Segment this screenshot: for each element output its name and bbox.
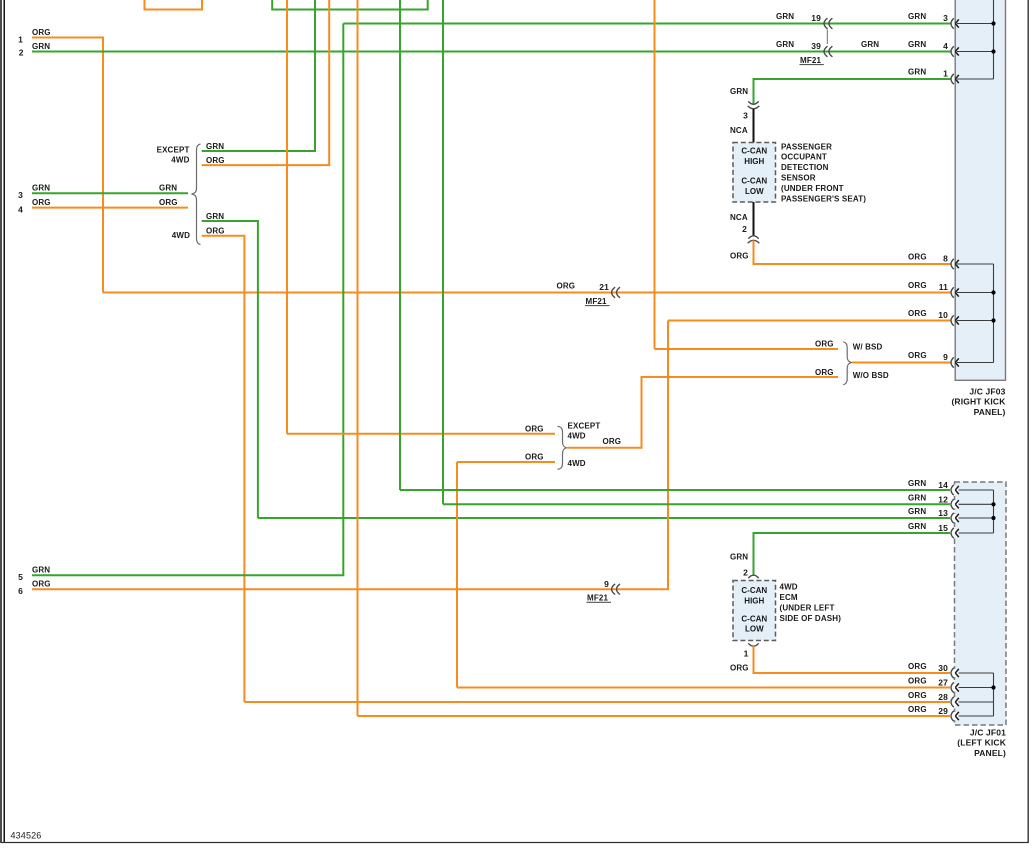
4WD ECM name text — [780, 583, 842, 623]
svg-text:GRN: GRN — [730, 87, 748, 96]
svg-text:ORG: ORG — [730, 252, 749, 261]
svg-text:ORG: ORG — [908, 662, 927, 671]
in-line connector (double arc) above POD sensor — [748, 101, 760, 108]
svg-text:9: 9 — [943, 352, 948, 362]
wire 2 GRN (left pin 2 to J/C JF03 pin 4, via splice MF21 pin 39) — [32, 51, 951, 53]
svg-text:ORG: ORG — [908, 351, 927, 360]
svg-text:2: 2 — [19, 48, 24, 58]
wire ORG from top to W/ BSD brace — [655, 0, 839, 349]
left pin 3 labels — [18, 184, 177, 201]
diagram number — [11, 830, 42, 840]
wire ORG 4WD ECM pin 1 to J/C JF01 pin 30 — [753, 646, 951, 673]
J/C JF01 name text — [957, 727, 1006, 757]
svg-text:C-CAN: C-CAN — [741, 177, 767, 186]
mid GRN label on wire 2 — [861, 40, 879, 49]
wire 3 GRN (left pin 3 to brace) — [32, 192, 188, 194]
svg-text:GRN: GRN — [776, 12, 794, 21]
svg-text:ORG: ORG — [908, 309, 927, 318]
svg-text:14: 14 — [938, 480, 948, 490]
svg-text:12: 12 — [938, 495, 948, 505]
svg-text:GRN: GRN — [32, 566, 50, 575]
svg-text:ORG: ORG — [908, 281, 927, 290]
J/C JF01 pin terminals — [950, 485, 959, 721]
merge EXCEPT 4WD upper ORG label — [525, 424, 544, 433]
svg-text:GRN: GRN — [908, 479, 926, 488]
svg-text:GRN: GRN — [908, 12, 926, 21]
J/C JF01 pin 15 wire labels — [908, 522, 948, 533]
svg-text:ECM: ECM — [780, 593, 798, 602]
svg-text:ORG: ORG — [525, 453, 544, 462]
svg-text:8: 8 — [943, 254, 948, 264]
wire ORG EXCEPT 4WD (from top vertical to merge brace) — [287, 0, 555, 434]
svg-text:15: 15 — [938, 523, 948, 533]
wire GRN from top to J/C JF03 pin 3 (also left pin 5) — [32, 24, 951, 576]
J/C JF03 internal bus (pins 3,4,1) — [957, 0, 994, 79]
POD sensor pin 2 label — [742, 224, 747, 234]
svg-text:1: 1 — [18, 34, 23, 44]
svg-text:OCCUPANT: OCCUPANT — [781, 153, 827, 162]
svg-text:39: 39 — [811, 41, 821, 51]
svg-text:ORG: ORG — [159, 198, 178, 207]
svg-text:PANEL): PANEL) — [974, 407, 1006, 417]
J/C JF01 internal bus (pins 30,27,28,29) — [957, 673, 994, 716]
page border bottom — [1, 842, 1029, 844]
svg-text:3: 3 — [943, 13, 948, 23]
svg-text:SENSOR: SENSOR — [781, 174, 816, 183]
wire ORG 4WD (from J/C JF01 pin 27 riser to merge brace) — [457, 462, 951, 688]
svg-text:4WD: 4WD — [172, 231, 190, 240]
junction dot J/C JF01 pin 12 — [991, 502, 995, 506]
J/C JF01 pin 12 wire labels — [908, 494, 948, 505]
svg-text:ORG: ORG — [603, 437, 622, 446]
svg-text:11: 11 — [939, 282, 948, 292]
junction dot J/C JF03 pin 3 — [991, 21, 995, 25]
svg-text:GRN: GRN — [159, 184, 177, 193]
brace merging EXCEPT 4WD / 4WD ORG wires — [558, 426, 567, 469]
svg-text:ORG: ORG — [32, 198, 51, 207]
merge lower ORG label — [525, 453, 544, 462]
svg-text:NCA: NCA — [730, 126, 748, 135]
svg-text:ORG: ORG — [815, 339, 834, 348]
svg-text:ORG: ORG — [908, 691, 927, 700]
svg-text:ORG: ORG — [908, 705, 927, 714]
svg-text:27: 27 — [938, 678, 948, 688]
junction dot J/C JF01 pin 27 — [991, 685, 995, 689]
junction connector J/C JF03 (right kick panel) box — [955, 0, 1005, 380]
J/C JF03 pin 11 wire labels — [908, 281, 948, 292]
J/C JF01 pin 30 wire labels — [908, 662, 948, 673]
wire GRN from top to J/C JF01 pin 14 — [400, 0, 951, 490]
J/C JF03 pin 8 wire labels — [908, 253, 948, 264]
component box (cut off at top, orange) — [145, 0, 203, 10]
POD sensor NCA label top — [730, 126, 748, 135]
svg-text:30: 30 — [938, 663, 948, 673]
merge output ORG label — [603, 437, 622, 446]
svg-text:MF21: MF21 — [587, 594, 608, 603]
svg-text:C-CAN: C-CAN — [741, 615, 767, 624]
svg-text:GRN: GRN — [908, 522, 926, 531]
page border left double line — [0, 0, 2, 843]
wire ORG POD sensor pin 2 to J/C JF03 pin 8 — [753, 240, 951, 264]
svg-text:GRN: GRN — [32, 42, 50, 51]
svg-text:NCA: NCA — [730, 213, 748, 222]
svg-text:HIGH: HIGH — [744, 157, 764, 166]
W/O BSD wire label — [815, 368, 889, 380]
svg-text:ORG: ORG — [525, 424, 544, 433]
svg-text:SIDE OF DASH): SIDE OF DASH) — [780, 614, 842, 623]
splice MF21 pin 19 break on pin-3 wire — [824, 18, 832, 29]
connector arc at 4WD ECM pin 2 — [748, 575, 758, 578]
junction connector J/C JF01 (left kick panel) box — [955, 482, 1007, 725]
svg-text:MF21: MF21 — [586, 297, 607, 306]
svg-text:DETECTION: DETECTION — [781, 163, 829, 172]
wire 4WD GRN (brace down to J/C JF01 pin 13) — [202, 221, 951, 518]
splice MF21 pin 21 labels — [557, 281, 610, 306]
wire GRN J/C JF01 pin 15 to 4WD ECM pin 2 — [753, 533, 951, 575]
svg-text:GRN: GRN — [908, 494, 926, 503]
svg-text:ORG: ORG — [206, 227, 225, 236]
J/C JF03 pin 9 wire labels — [908, 351, 948, 362]
svg-text:4WD: 4WD — [780, 583, 798, 592]
svg-text:(LEFT KICK: (LEFT KICK — [957, 738, 1006, 748]
svg-text:3: 3 — [18, 190, 23, 200]
svg-text:GRN: GRN — [206, 142, 224, 151]
svg-text:2: 2 — [742, 224, 747, 234]
svg-text:1: 1 — [744, 649, 749, 659]
J/C JF03 internal bus (pins 8,11,10,9) — [957, 264, 994, 363]
svg-text:GRN: GRN — [776, 40, 794, 49]
svg-text:29: 29 — [938, 706, 948, 716]
svg-text:21: 21 — [599, 282, 609, 292]
EXCEPT 4WD label at brace — [157, 145, 190, 164]
svg-text:ORG: ORG — [32, 580, 51, 589]
J/C JF01 pin 13 wire labels — [908, 507, 948, 518]
junction dot J/C JF03 pin 11 — [991, 290, 995, 294]
wire EXCEPT 4WD GRN (brace to top component) — [202, 0, 316, 152]
4WD GRN wire label — [206, 212, 224, 221]
J/C JF03 pin 3 wire labels — [908, 12, 948, 23]
svg-text:(RIGHT KICK: (RIGHT KICK — [951, 397, 1006, 407]
svg-text:GRN: GRN — [730, 553, 748, 562]
4WD ECM ORG label — [730, 664, 749, 673]
svg-text:1: 1 — [943, 69, 948, 79]
in-line connector (double arc) below POD sensor — [748, 236, 760, 243]
svg-text:434526: 434526 — [11, 830, 42, 840]
svg-text:C-CAN: C-CAN — [741, 147, 767, 156]
svg-text:GRN: GRN — [908, 40, 926, 49]
svg-text:J/C JF01: J/C JF01 — [970, 727, 1006, 737]
svg-text:10: 10 — [938, 310, 948, 320]
svg-text:ORG: ORG — [557, 281, 576, 290]
4WD label at brace — [172, 231, 190, 240]
svg-text:13: 13 — [938, 508, 948, 518]
svg-text:4WD: 4WD — [568, 432, 586, 441]
POD sensor pigtail NCA wire top — [753, 109, 755, 143]
wire ORG W/O BSD from merge corner — [642, 376, 839, 448]
4WD ECM box (C-CAN HIGH / C-CAN LOW) — [733, 581, 776, 641]
page border right — [1027, 0, 1029, 843]
J/C JF01 internal bus (pins 14,12,13,15) — [957, 490, 994, 533]
svg-text:W/O BSD: W/O BSD — [853, 371, 889, 380]
connector arc at 4WD ECM pin 1 — [748, 643, 758, 646]
left pin 2 labels — [19, 42, 51, 58]
svg-text:GRN: GRN — [206, 212, 224, 221]
svg-text:LOW: LOW — [745, 187, 764, 196]
junction dot J/C JF03 pin 10 — [991, 318, 995, 322]
svg-text:LOW: LOW — [745, 625, 764, 634]
EXCEPT 4WD GRN wire label — [206, 142, 224, 151]
svg-text:GRN: GRN — [908, 68, 926, 77]
4WD ECM pin 1 label — [744, 649, 749, 659]
brace grouping wires 3/4 into EXCEPT 4WD and 4WD variants — [192, 144, 201, 245]
J/C JF01 pin 27 wire labels — [908, 677, 948, 688]
J/C JF03 pin 1 wire labels — [908, 68, 948, 79]
svg-text:19: 19 — [811, 13, 821, 23]
POD sensor GRN label — [730, 87, 748, 96]
component box (cut off at top, green) — [272, 0, 428, 10]
svg-text:HIGH: HIGH — [744, 597, 764, 606]
wire ORG to J/C JF03 pin 9 — [852, 362, 951, 364]
svg-text:5: 5 — [18, 572, 23, 582]
POD sensor ORG label — [730, 252, 749, 261]
svg-text:EXCEPT: EXCEPT — [157, 145, 190, 154]
4WD ORG wire label — [206, 227, 225, 236]
EXCEPT 4WD ORG wire label — [206, 156, 225, 165]
MF21 break link line — [826, 30, 828, 45]
junction dot J/C JF01 pin 13 — [991, 516, 995, 520]
svg-text:4: 4 — [18, 204, 23, 214]
svg-text:2: 2 — [743, 567, 748, 577]
splice MF21 pin 21 break on wire to pin 11 — [612, 287, 620, 298]
svg-text:J/C JF03: J/C JF03 — [969, 386, 1005, 396]
brace merging W/ BSD and W/O BSD into J/C JF03 pin 9 — [843, 342, 851, 385]
wire 4WD ORG (brace down to J/C JF01 pin 28) — [202, 236, 951, 702]
wire ORG from riser to J/C JF01 pin 29 — [358, 0, 951, 716]
POD sensor NCA label bottom — [730, 213, 748, 222]
svg-text:GRN: GRN — [32, 184, 50, 193]
J/C JF01 pin 28 wire labels — [908, 691, 948, 702]
passenger occupant detection sensor name text — [781, 142, 866, 203]
svg-text:PASSENGER: PASSENGER — [781, 142, 832, 151]
svg-text:6: 6 — [18, 586, 23, 596]
left pin 4 labels — [18, 198, 178, 215]
J/C JF01 pin 14 wire labels — [908, 479, 948, 490]
junction dot J/C JF03 pin 4 — [991, 49, 995, 53]
splice MF21 pin 19 labels — [776, 12, 821, 23]
splice MF21 pin 39 labels — [776, 40, 824, 65]
svg-text:4: 4 — [943, 41, 948, 51]
wire EXCEPT 4WD ORG (brace to top component) — [202, 0, 331, 166]
splice MF21 pin 9 break on wire to pin 10 — [612, 584, 620, 595]
svg-text:ORG: ORG — [908, 253, 927, 262]
svg-text:GRN: GRN — [908, 507, 926, 516]
wire ORG merged output (brace to W/O BSD riser) — [568, 447, 643, 449]
J/C JF01 pin 29 wire labels — [908, 705, 948, 716]
svg-text:ORG: ORG — [730, 664, 749, 673]
svg-text:28: 28 — [938, 692, 948, 702]
svg-text:9: 9 — [604, 579, 609, 589]
4WD ECM GRN label — [730, 553, 748, 562]
svg-text:4WD: 4WD — [171, 156, 189, 165]
wire GRN J/C JF03 pin 1 to passenger occupant detection sensor — [753, 79, 951, 104]
W/ BSD wire label — [815, 339, 883, 351]
left pin 5 labels — [18, 566, 50, 583]
merge 4WD text — [568, 459, 586, 468]
POD sensor pigtail NCA wire bottom — [753, 202, 755, 236]
svg-text:ORG: ORG — [815, 368, 834, 377]
svg-text:EXCEPT: EXCEPT — [568, 421, 601, 430]
J/C JF03 name text — [951, 386, 1006, 416]
J/C JF03 pin 10 wire labels — [908, 309, 948, 320]
4WD ECM pin 2 label — [743, 567, 748, 577]
splice MF21 pin 39 break on wire 2 — [824, 46, 832, 57]
svg-text:ORG: ORG — [206, 156, 225, 165]
left pin 6 labels — [18, 580, 51, 597]
J/C JF03 pin terminals — [951, 18, 959, 367]
svg-text:(UNDER FRONT: (UNDER FRONT — [781, 184, 844, 193]
svg-text:PANEL): PANEL) — [974, 748, 1006, 758]
merge EXCEPT 4WD / 4WD text — [568, 421, 601, 440]
svg-text:ORG: ORG — [908, 677, 927, 686]
svg-text:GRN: GRN — [861, 40, 879, 49]
wire 4 ORG (left pin 4 to brace) — [32, 207, 188, 209]
splice MF21 pin 9 labels — [587, 579, 612, 603]
wire ORG from left pin 6 to J/C JF03 pin 10 (via splice MF21 pin 9) — [32, 321, 951, 590]
passenger occupant detection sensor box (C-CAN HIGH / C-CAN LOW) — [733, 143, 776, 203]
svg-text:W/ BSD: W/ BSD — [853, 342, 883, 351]
POD sensor pin 3 label — [743, 110, 748, 120]
svg-text:PASSENGER'S SEAT): PASSENGER'S SEAT) — [781, 194, 866, 203]
svg-text:C-CAN: C-CAN — [741, 586, 767, 595]
svg-text:ORG: ORG — [32, 28, 51, 37]
J/C JF03 pin 4 wire labels — [908, 40, 948, 51]
svg-text:MF21: MF21 — [800, 56, 821, 65]
wire 1 ORG (left pin 1 to J/C JF03 pin 11, via splice MF21 pin 21) — [32, 38, 951, 293]
svg-text:3: 3 — [743, 110, 748, 120]
svg-text:4WD: 4WD — [568, 459, 586, 468]
svg-text:(UNDER LEFT: (UNDER LEFT — [780, 604, 835, 613]
wire GRN from top to J/C JF01 pin 12 — [443, 0, 951, 504]
left pin 1 labels — [18, 28, 51, 45]
